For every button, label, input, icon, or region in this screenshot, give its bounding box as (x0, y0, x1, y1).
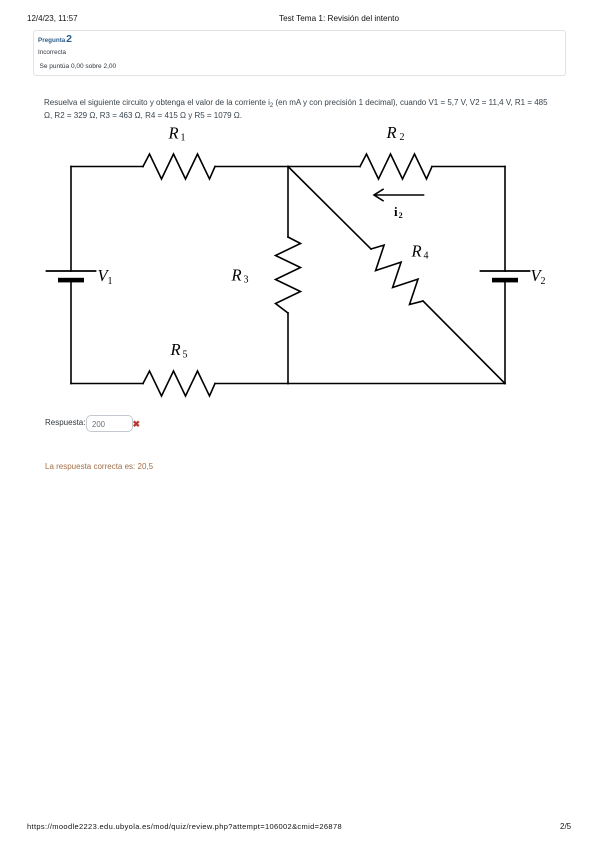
print header title (279, 14, 399, 23)
print footer page number (560, 822, 571, 831)
svg-text:1: 1 (108, 276, 113, 287)
wire diagonal lower (R4 to node F) (423, 301, 505, 384)
label V1 (98, 266, 113, 287)
resistor R2 (360, 154, 432, 179)
svg-text:3: 3 (244, 275, 249, 286)
wire diagonal upper (node B to R4) (288, 167, 371, 250)
svg-text:2: 2 (541, 276, 546, 287)
svg-text:R: R (168, 124, 179, 143)
wire node B to R2 (288, 166, 360, 168)
answer row (45, 418, 85, 427)
resistor R5 (143, 371, 215, 396)
svg-text:4: 4 (424, 251, 429, 262)
label i2 (394, 204, 403, 220)
wire right vertical lower (V2 to node F) (504, 282, 506, 383)
current arrow i2 (374, 189, 424, 200)
correct answer feedback (45, 462, 153, 471)
print header date (27, 14, 78, 23)
wire left vertical upper (node A to V1) (70, 167, 72, 272)
resistor R1 (143, 154, 215, 179)
wire left vertical lower (V1 to node D) (70, 282, 72, 383)
question text (44, 97, 550, 122)
wire R1 to node B (215, 166, 288, 168)
incorrect cross (133, 419, 141, 430)
wire R5 to node E (215, 383, 288, 385)
wire middle vertical lower (R3 to node E) (287, 313, 289, 384)
label R5 (170, 340, 188, 360)
svg-text:R: R (411, 242, 422, 261)
label R2 (386, 123, 405, 143)
question info box (33, 30, 566, 76)
label R3 (231, 266, 249, 286)
svg-text:2: 2 (400, 132, 405, 143)
resistor R3 (276, 237, 301, 313)
label R4 (411, 242, 429, 262)
label V2 (531, 266, 546, 287)
svg-text:R: R (386, 123, 397, 142)
svg-text:i: i (394, 204, 398, 219)
wire right vertical upper (node C to V2) (504, 167, 506, 272)
wire top-left (node A to R1) (71, 166, 143, 168)
answer input box (86, 415, 133, 432)
svg-text:R: R (170, 340, 181, 359)
resistor R4 (371, 245, 423, 304)
svg-text:R: R (231, 266, 242, 285)
label R1 (168, 124, 186, 144)
wire bottom-right (node E to node F) (288, 383, 505, 385)
battery V1 (47, 271, 96, 282)
wire R2 to node C (432, 166, 505, 168)
print footer url (27, 822, 342, 831)
battery V2 (481, 271, 530, 282)
svg-text:2: 2 (399, 211, 403, 220)
svg-text:1: 1 (181, 133, 186, 144)
wire middle vertical upper (node B to R3) (287, 167, 289, 238)
svg-text:5: 5 (183, 349, 188, 360)
wire bottom-left (node D to R5) (71, 383, 143, 385)
